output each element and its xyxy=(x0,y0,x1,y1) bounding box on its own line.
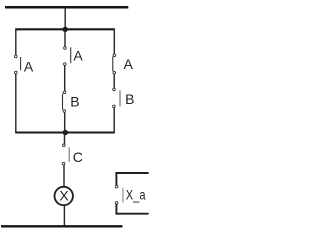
wire: right branch lower xyxy=(113,108,115,134)
wire: bottom dot to switch C xyxy=(64,134,66,145)
svg-text:A: A xyxy=(24,58,34,74)
contact X_a upper terminal xyxy=(115,185,118,188)
lamp X circle xyxy=(55,187,73,205)
wire: right branch upper xyxy=(113,28,115,54)
switch A1 upper terminal xyxy=(15,55,18,58)
contact X_a bottom lead xyxy=(116,204,148,213)
switch B2 lower terminal xyxy=(113,105,116,108)
wire: left branch lower xyxy=(15,74,17,134)
switch B1 upper terminal xyxy=(63,91,66,94)
switch C upper terminal xyxy=(63,144,66,147)
switch C lower terminal xyxy=(62,162,65,165)
switch A2 blade (open) xyxy=(70,47,72,63)
switch A2 upper terminal xyxy=(64,47,67,50)
top busbar xyxy=(5,6,128,9)
bottom busbar xyxy=(1,225,123,227)
wire: left branch upper xyxy=(15,28,17,55)
ring top wire xyxy=(16,28,115,30)
switch A2 lower terminal xyxy=(64,63,67,66)
contact X_a top lead xyxy=(116,173,148,185)
contact X_a blade (open) xyxy=(122,188,124,203)
switch A1 blade (open) xyxy=(20,57,22,70)
switch A3 upper terminal xyxy=(113,54,116,57)
switch B1 blade (closed) xyxy=(62,94,64,110)
switch A1 lower terminal xyxy=(15,71,18,74)
junction dot top xyxy=(62,27,67,32)
wire: middle between B1 and bottom dot xyxy=(64,112,66,132)
switch A3 blade (closed) xyxy=(112,57,114,72)
switch B1 lower terminal xyxy=(63,110,66,113)
wire: lamp X to bottom busbar xyxy=(63,206,65,227)
switch B2 upper terminal xyxy=(113,88,116,91)
ring bottom wire xyxy=(16,131,115,133)
wire: busbar to top junction xyxy=(64,7,66,29)
svg-text:A: A xyxy=(73,47,83,63)
svg-text:A: A xyxy=(124,56,134,72)
svg-text:C: C xyxy=(73,149,83,165)
svg-text:B: B xyxy=(125,91,134,107)
wire: middle below top dot xyxy=(64,30,66,47)
switch C blade (open) xyxy=(68,147,70,161)
svg-text:X: X xyxy=(59,187,69,203)
contact X_a lower terminal xyxy=(115,202,118,205)
svg-text:X_a: X_a xyxy=(126,187,146,203)
svg-text:B: B xyxy=(70,93,79,109)
switch B2 blade (open) xyxy=(119,90,121,106)
junction dot bottom xyxy=(63,130,68,135)
wire: switch C to lamp X xyxy=(63,165,65,187)
switch A3 lower terminal xyxy=(113,71,116,74)
wire: middle between A2 and B1 xyxy=(64,66,66,92)
wire: right branch between A3 and B2 xyxy=(113,74,115,88)
